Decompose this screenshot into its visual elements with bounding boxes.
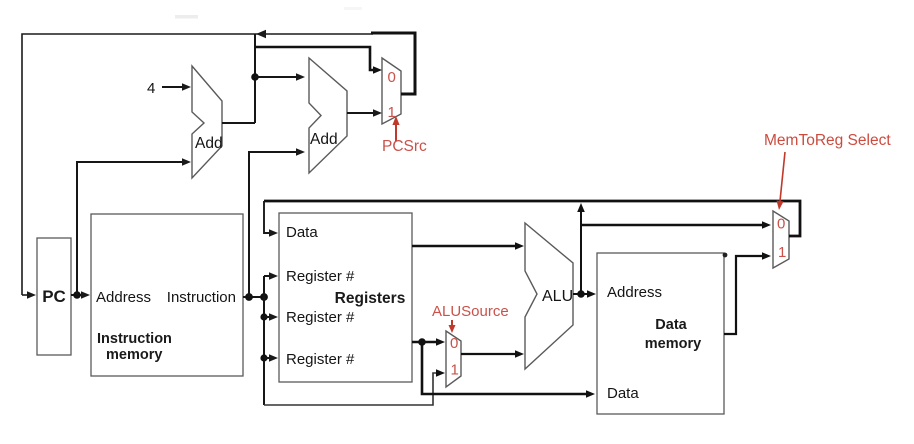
wire ALU output riser (577, 203, 585, 294)
PC register box (37, 238, 71, 355)
node instruction out (245, 293, 253, 301)
mux ALUSource (446, 331, 461, 387)
wire to register #1 input (264, 272, 278, 280)
node register #3 tap (260, 354, 267, 361)
arrow PCSrc select (red) (392, 116, 399, 141)
wire PC to Add1 bottom input (77, 158, 191, 295)
wire ALU result to MemToReg mux 0 (thick) (581, 221, 771, 229)
wire ALUSource mux output to ALU (461, 350, 524, 358)
wire read data 1 to ALU (412, 242, 524, 250)
mux MemToReg (773, 211, 789, 268)
svg-text:1: 1 (451, 362, 459, 379)
svg-text:Register #: Register # (286, 268, 355, 285)
svg-text:Registers: Registers (335, 290, 406, 307)
stray dot data memory corner (723, 253, 728, 258)
svg-text:0: 0 (388, 69, 396, 86)
adder Add2 (branch target) (309, 58, 347, 173)
registers box (279, 213, 412, 382)
arrow MemToReg select (red, long) (777, 152, 786, 210)
ALU U1 (525, 223, 573, 369)
wire write data into registers (264, 201, 278, 237)
mux PCSrc (382, 58, 401, 124)
svg-text:4: 4 (147, 80, 155, 97)
svg-text:Data: Data (655, 317, 687, 333)
wire Add2 output to PCSrc mux 1 (347, 109, 382, 117)
wire memory read data to MemToReg mux 1 (724, 252, 771, 334)
data memory box (597, 253, 724, 414)
wire PC feedback top-left (thin) (22, 34, 373, 299)
wire PC+4 to Add2 top input (255, 73, 305, 81)
node ALU output (577, 290, 585, 298)
svg-text:Address: Address (607, 284, 662, 301)
arrow ALUSource select (red) (449, 320, 456, 333)
wire MemToReg mux output feedback (thick) (264, 201, 800, 236)
svg-text:ALUSource: ALUSource (432, 303, 509, 320)
svg-text:Add: Add (195, 135, 223, 152)
svg-text:MemToReg Select: MemToReg Select (764, 132, 891, 149)
svg-text:Instruction: Instruction (167, 289, 236, 306)
wire immediate to ALUSource mux 1 (264, 369, 445, 405)
wire read data 2 to data memory data input (422, 342, 595, 398)
wire PC+4 to PCSrc mux 0 (thick) (255, 47, 382, 74)
wire Add1 output to node (222, 34, 255, 123)
svg-text:Register #: Register # (286, 351, 355, 368)
label 4 (constant input) (147, 80, 191, 97)
node instruction register bus (260, 293, 268, 301)
node register #2 tap (260, 313, 267, 320)
svg-text:Data: Data (286, 224, 318, 241)
svg-text:memory: memory (106, 347, 162, 363)
svg-text:Address: Address (96, 289, 151, 306)
svg-text:1: 1 (388, 104, 396, 121)
wire read data 2 to ALUSource mux 0 (412, 338, 445, 346)
wire PC output to instruction memory (71, 291, 90, 299)
wire instruction to Add2 bottom input (249, 148, 305, 297)
svg-text:0: 0 (450, 335, 458, 352)
wire register number bus vertical (263, 276, 265, 405)
svg-text:PCSrc: PCSrc (382, 138, 427, 155)
node PC+4 branch (251, 73, 259, 81)
wire ALU output to data memory address (573, 290, 596, 298)
svg-text:1: 1 (778, 244, 786, 261)
node read data 2 branch (418, 338, 426, 346)
wire to register #2 input (264, 313, 278, 321)
svg-text:Add: Add (310, 131, 338, 148)
wire instruction bus (243, 296, 264, 298)
svg-text:memory: memory (645, 336, 701, 352)
svg-text:0: 0 (777, 216, 785, 233)
svg-text:PC: PC (42, 287, 66, 306)
wire to register #3 input (264, 354, 278, 362)
svg-text:ALU: ALU (542, 288, 573, 305)
wire PCSrc mux output feedback (thick) (371, 33, 415, 94)
adder Add1 (PC+4) (192, 66, 223, 178)
svg-text:Data: Data (607, 385, 639, 402)
arrowhead mid-wire on top feedback (256, 30, 266, 39)
svg-text:Register #: Register # (286, 309, 355, 326)
smudge artifact top (175, 7, 362, 19)
instruction memory box (91, 214, 243, 376)
node PC output (73, 291, 81, 299)
svg-text:Instruction: Instruction (97, 331, 172, 347)
